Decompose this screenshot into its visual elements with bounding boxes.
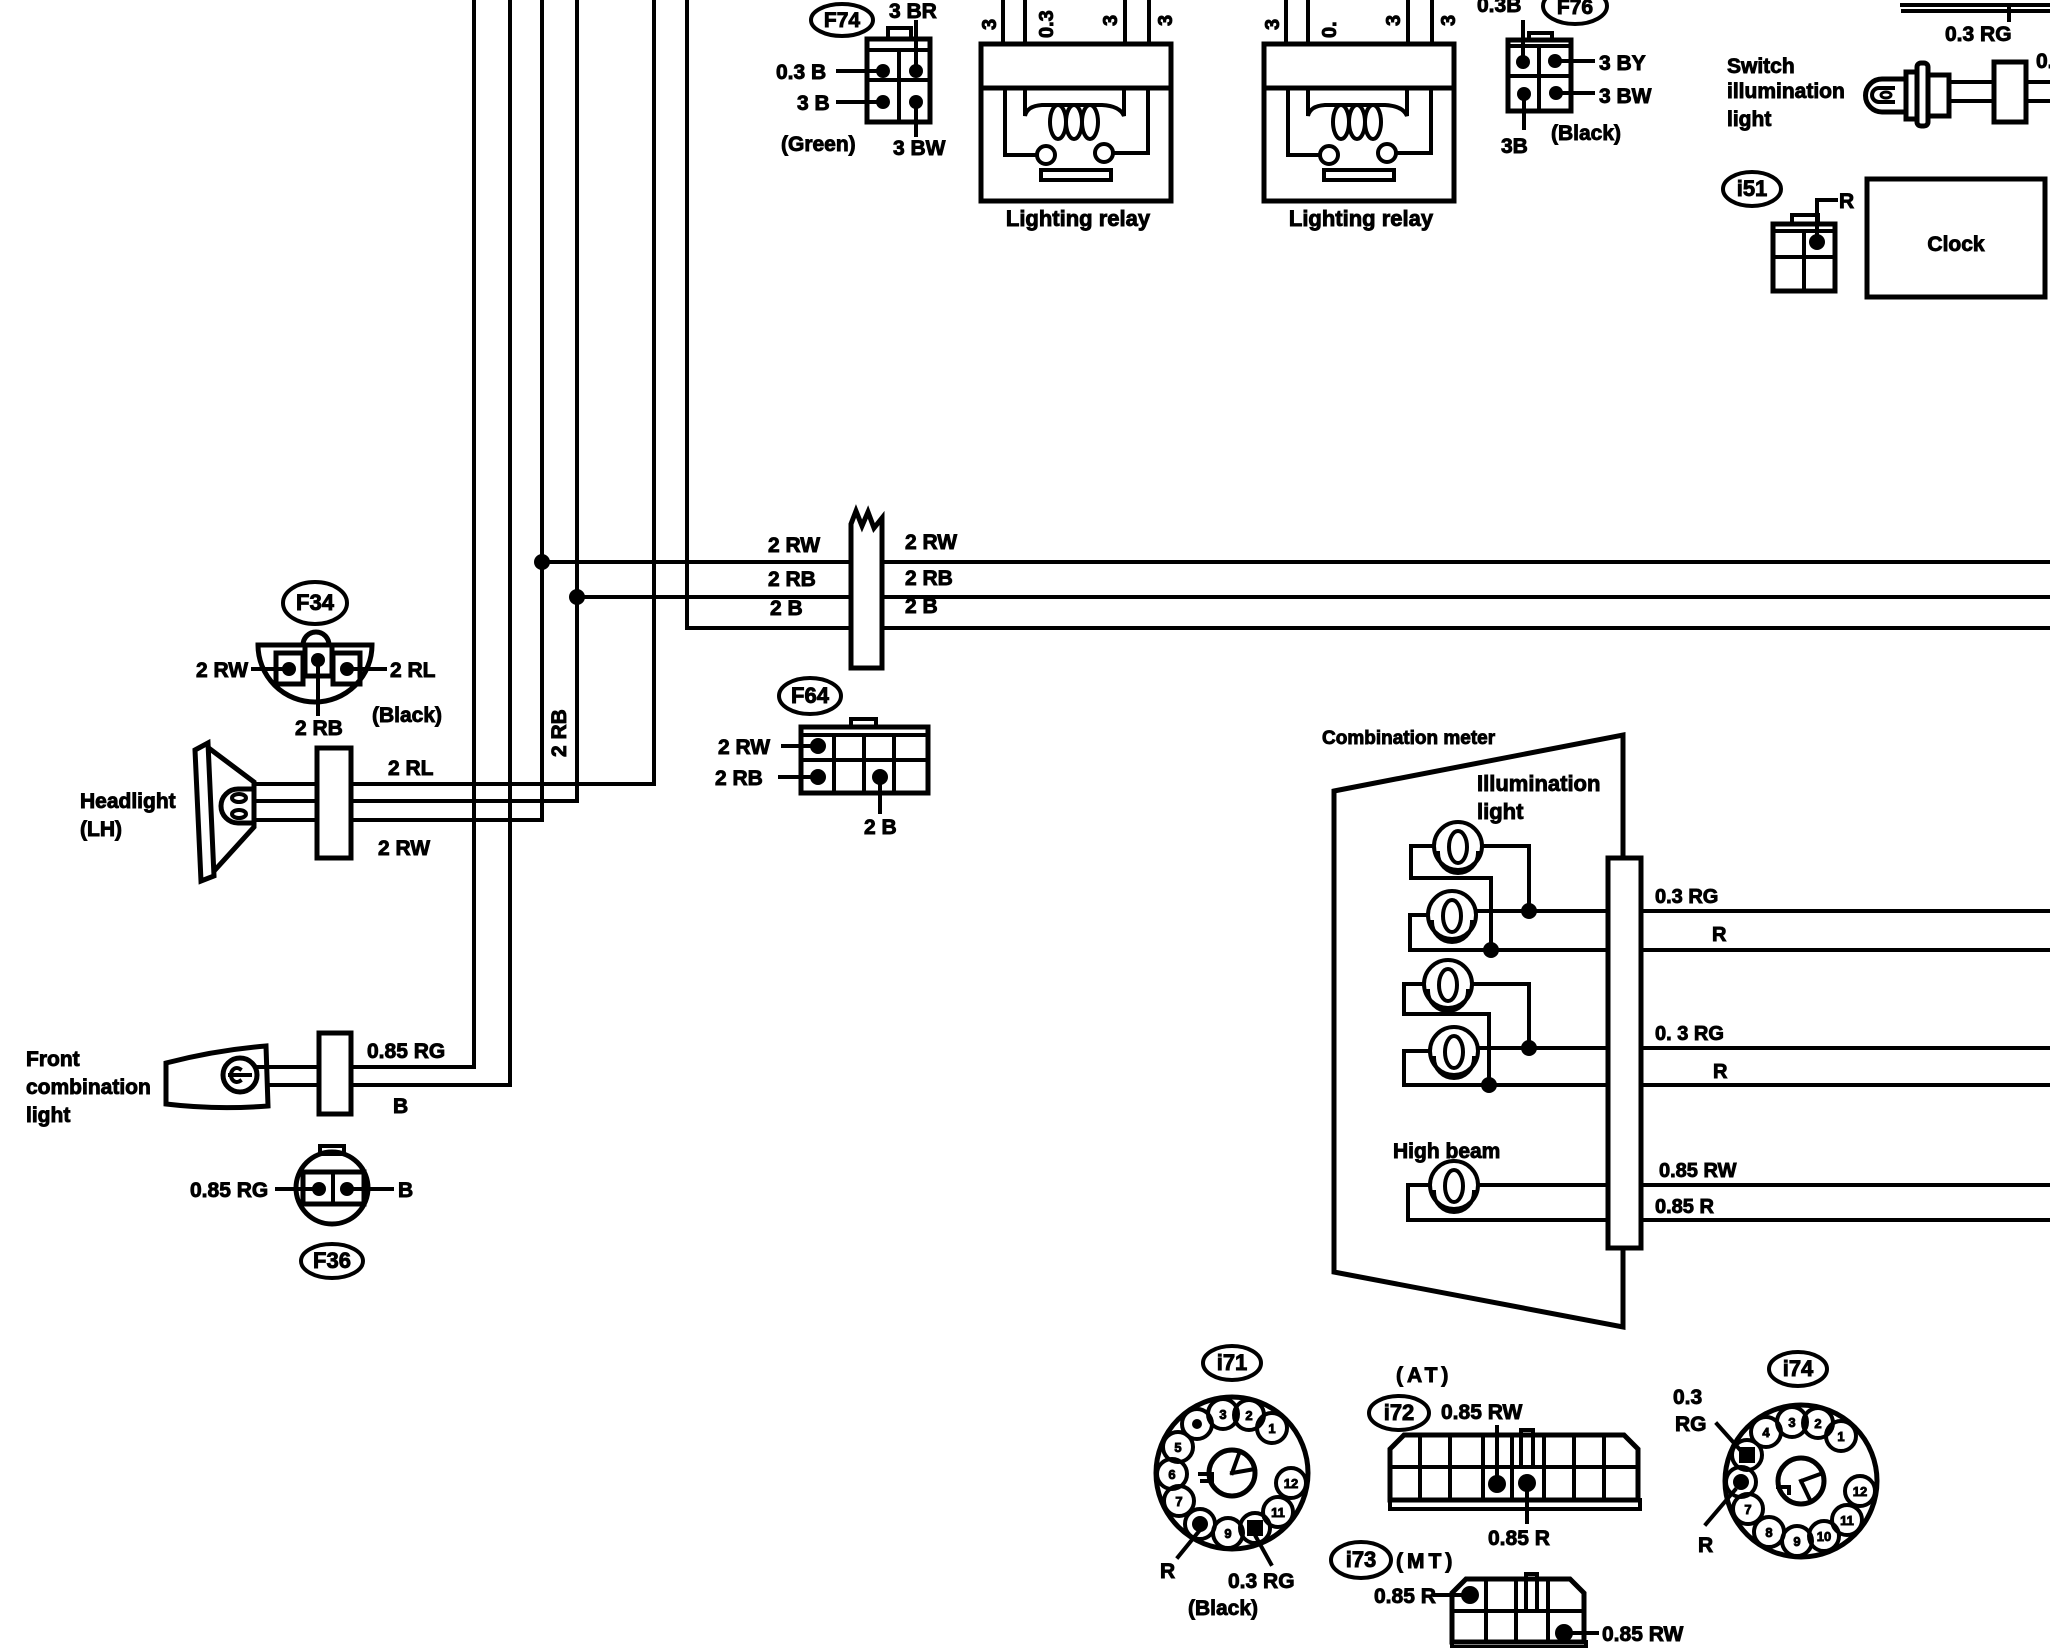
connector F76 label oval (cut at top) xyxy=(1543,0,1607,24)
connector F76 tab xyxy=(1529,33,1552,40)
svg-text:(Black): (Black) xyxy=(372,704,442,727)
svg-text:F34: F34 xyxy=(296,590,335,615)
connector i51 body xyxy=(1773,224,1835,291)
connector F36 pin band xyxy=(303,1172,364,1204)
wire tick on 0.3RG xyxy=(2007,7,2011,20)
svg-text:0.3B: 0.3B xyxy=(1477,0,1521,17)
svg-text:Combination meter: Combination meter xyxy=(1322,728,1496,749)
connector F74 tab xyxy=(888,28,911,39)
wire V1 (0.85 RG feed) vertical x=474 xyxy=(472,0,476,1067)
wire continues right (double) xyxy=(2026,80,2050,84)
connector i74 pin 1 xyxy=(1826,1421,1856,1451)
bulb3 left staple wire xyxy=(1404,984,1489,1077)
wire stub 3B from F76 xyxy=(1522,100,1526,128)
svg-text:(Black): (Black) xyxy=(1188,1597,1258,1620)
combination meter trapezoid outline xyxy=(1334,735,1623,1327)
connector i71 pin 12 xyxy=(1276,1468,1306,1498)
connector i74 pin 2 xyxy=(1803,1408,1833,1438)
junction dot on 0.3RG line 2 xyxy=(1521,1040,1537,1056)
connector F36 label oval xyxy=(301,1244,363,1278)
connector i71 pin 2 xyxy=(1234,1400,1264,1430)
connector F76 body xyxy=(1508,40,1571,111)
relay contact wire left xyxy=(1005,88,1037,155)
wire stub 0.3B into F76 xyxy=(1521,22,1525,62)
connector i73 bottom band xyxy=(1452,1642,1586,1647)
svg-text:R: R xyxy=(1698,1534,1713,1557)
inline connector (switch illum) xyxy=(1994,62,2026,122)
svg-text:0.85 RG: 0.85 RG xyxy=(367,1040,445,1063)
svg-text:2 RL: 2 RL xyxy=(388,757,434,780)
wire 2RL headlight y=784 xyxy=(254,782,317,786)
connector i74 body circle xyxy=(1725,1405,1877,1557)
svg-text:9: 9 xyxy=(1224,1526,1231,1541)
connector i74 pin 9 xyxy=(1782,1526,1812,1556)
wire stub 2RW to F34 xyxy=(253,667,283,671)
svg-text:2 RB: 2 RB xyxy=(768,568,816,591)
svg-text:2 RB: 2 RB xyxy=(715,767,763,790)
connector i73 column dividers xyxy=(1484,1580,1488,1642)
wire 0.85R meter (bulb5 left staple) xyxy=(1408,1185,1608,1220)
svg-text:R: R xyxy=(1713,1061,1728,1083)
connector i73 pin 0.85RW xyxy=(1555,1624,1573,1642)
connector i71 pin 11 xyxy=(1263,1497,1293,1527)
connector i73 pin 0.85R xyxy=(1461,1586,1479,1604)
svg-text:2 RW: 2 RW xyxy=(378,837,430,860)
illumination bulb 1 xyxy=(1434,822,1482,870)
connector i74 pin 6 xyxy=(1726,1467,1756,1497)
svg-text:0.85 R: 0.85 R xyxy=(1488,1527,1550,1550)
svg-text:0.3 RG: 0.3 RG xyxy=(1655,886,1718,908)
lighting relay at x=981 xyxy=(1001,0,1005,44)
svg-text:Clock: Clock xyxy=(1927,233,1985,256)
wire B front comb y=1085 xyxy=(268,1083,319,1087)
svg-text:2 RB: 2 RB xyxy=(905,567,953,590)
connector i72 pin 0.85R xyxy=(1518,1474,1536,1492)
svg-text:0.3 RG: 0.3 RG xyxy=(1945,23,2012,46)
connector i73 body xyxy=(1452,1579,1584,1642)
junction dot on R line 2 xyxy=(1481,1077,1497,1093)
relay outer box xyxy=(1264,44,1454,201)
svg-text:0. 3 RG: 0. 3 RG xyxy=(1655,1023,1724,1045)
svg-text:(LH): (LH) xyxy=(80,818,122,841)
connector i74 pin 4 xyxy=(1751,1417,1781,1447)
wire 0.3RG right of bar 2 xyxy=(1641,1046,2050,1050)
svg-text:0.85 R: 0.85 R xyxy=(1374,1585,1436,1608)
svg-text:3 BW: 3 BW xyxy=(893,137,946,160)
connector i72 key slot xyxy=(1519,1430,1523,1467)
connector i72 bottom band xyxy=(1390,1500,1640,1509)
connector F64 pin 2RB xyxy=(810,769,826,785)
connector F34 label oval xyxy=(283,582,347,624)
wire stub 3BW from F76 xyxy=(1562,91,1593,95)
relay armature bar xyxy=(1041,170,1111,180)
svg-text:0.: 0. xyxy=(1319,21,1341,38)
connector i71 label oval xyxy=(1203,1346,1261,1380)
svg-text:(Green): (Green) xyxy=(781,133,856,156)
connector F64 pin 2B xyxy=(872,769,888,785)
svg-text:12: 12 xyxy=(1853,1484,1867,1499)
wire 0.3RG right of bar 1 xyxy=(1641,909,2050,913)
relay contact circle left xyxy=(1037,146,1055,164)
svg-text:F74: F74 xyxy=(824,9,861,32)
connector i74 pin 3 xyxy=(1777,1407,1807,1437)
svg-text:R: R xyxy=(1839,190,1854,213)
svg-text:3: 3 xyxy=(1383,15,1405,26)
relay contact circle right xyxy=(1378,144,1396,162)
connector i72 row divider xyxy=(1390,1465,1638,1469)
connector i74 pin 5 xyxy=(1732,1440,1762,1470)
inline connector on bus (torn-top bar) xyxy=(851,511,882,668)
svg-text:8: 8 xyxy=(1765,1525,1772,1540)
connector i74 pin 10 xyxy=(1809,1521,1839,1551)
connector i74 label oval xyxy=(1769,1352,1827,1386)
wire stub 3BY from F76 xyxy=(1561,59,1593,63)
svg-text:light: light xyxy=(26,1104,70,1127)
svg-text:(Black): (Black) xyxy=(1551,122,1621,145)
connector F36 body circle xyxy=(296,1152,368,1224)
bulb3 right wire to 0.3RG line xyxy=(1472,984,1529,1040)
svg-text:Switch: Switch xyxy=(1727,55,1795,78)
relay contact wire right xyxy=(1113,88,1148,153)
wire stub 2B from F64 xyxy=(878,783,882,812)
svg-text:Lighting relay: Lighting relay xyxy=(1289,206,1434,231)
svg-text:9: 9 xyxy=(1793,1534,1800,1549)
connector i51 pin dot xyxy=(1809,234,1825,250)
svg-text:2 RW: 2 RW xyxy=(718,736,770,759)
svg-text:3: 3 xyxy=(1438,15,1460,26)
wire stub 2RB from F34 center pin xyxy=(316,666,320,714)
wire stub 3B to F74 xyxy=(838,100,877,104)
inline connector front comb light xyxy=(319,1033,351,1114)
svg-text:(AT): (AT) xyxy=(1396,1364,1452,1387)
illumination bulb 4 xyxy=(1430,1027,1478,1075)
svg-text:1: 1 xyxy=(1837,1429,1844,1444)
relay outer box xyxy=(981,44,1171,201)
wire 0.3RG to i74 pin5 xyxy=(1717,1424,1742,1452)
svg-text:light: light xyxy=(1477,799,1524,824)
connector F76 pins xyxy=(1516,55,1530,69)
connector i71 pin 10 xyxy=(1240,1513,1270,1543)
svg-text:F36: F36 xyxy=(313,1248,351,1273)
connector i72 label oval xyxy=(1369,1396,1429,1430)
svg-text:0.: 0. xyxy=(2036,50,2050,73)
svg-text:3: 3 xyxy=(1219,1407,1226,1422)
svg-text:0.3 RG: 0.3 RG xyxy=(1228,1570,1295,1593)
connector i71 pin 7 xyxy=(1164,1486,1194,1516)
svg-text:Front: Front xyxy=(26,1048,80,1071)
high beam bulb xyxy=(1430,1161,1478,1209)
connector i71 pin 8 xyxy=(1185,1509,1215,1539)
connector i71 pin 6 xyxy=(1157,1459,1187,1489)
svg-text:2 B: 2 B xyxy=(864,816,897,839)
connector i71 body circle xyxy=(1156,1397,1308,1549)
svg-text:2 RL: 2 RL xyxy=(390,659,436,682)
connector i74 center hole xyxy=(1778,1458,1824,1504)
wire 0.85R from i73 xyxy=(1435,1593,1470,1597)
front combination light housing xyxy=(166,1046,268,1108)
connector F34 pin cell center xyxy=(305,645,332,676)
connector i71 pin 3 xyxy=(1208,1399,1238,1429)
wire V4 (2RB feed) vertical x=577 xyxy=(575,0,579,801)
connector i72 pin 0.85RW xyxy=(1488,1475,1506,1493)
svg-text:i74: i74 xyxy=(1783,1356,1814,1381)
wire R right of bar 1 xyxy=(1641,948,2050,952)
wire R to i74 pin6 xyxy=(1706,1490,1735,1524)
connector F64 pin 2RW xyxy=(810,738,826,754)
wire R into i51 xyxy=(1817,200,1836,238)
wire V3 (2RW feed) vertical x=542 xyxy=(540,0,544,820)
svg-text:0.85 RW: 0.85 RW xyxy=(1602,1623,1683,1646)
wire R meter pair2 (bulb4 left staple) xyxy=(1404,1051,1608,1085)
wire 2RW headlight y=820 xyxy=(254,818,317,822)
headlight socket pin 1 xyxy=(232,794,246,802)
connector i72 column dividers xyxy=(1418,1437,1422,1500)
svg-text:combination: combination xyxy=(26,1076,151,1099)
svg-text:Illumination: Illumination xyxy=(1477,771,1600,796)
wire 0.85R right of bar xyxy=(1641,1218,2050,1222)
wire V2 (B feed) vertical x=510 xyxy=(508,0,512,1085)
svg-text:light: light xyxy=(1727,108,1771,131)
svg-text:3 BR: 3 BR xyxy=(889,0,937,23)
bulb1 right wire to 0.3RG line xyxy=(1482,846,1529,903)
svg-text:0.3: 0.3 xyxy=(1036,10,1058,38)
switch illumination bulb flange xyxy=(1917,63,1928,126)
illumination bulb 2 xyxy=(1428,891,1476,939)
lighting relay at x=1264 xyxy=(1284,0,1288,44)
wire stub 0.85RG to F36 xyxy=(277,1187,313,1191)
svg-text:2 RB: 2 RB xyxy=(295,717,343,740)
svg-text:3: 3 xyxy=(1262,19,1284,30)
relay coil xyxy=(1308,88,1407,116)
svg-text:Headlight: Headlight xyxy=(80,790,176,813)
svg-text:4: 4 xyxy=(1762,1425,1770,1440)
connector F34 top bump xyxy=(303,632,329,645)
inline connector headlight xyxy=(317,748,351,858)
wire from bulb to connector (double) xyxy=(1949,80,1994,84)
svg-text:illumination: illumination xyxy=(1727,80,1845,103)
connector i71 pin 1 xyxy=(1257,1413,1287,1443)
svg-text:i73: i73 xyxy=(1346,1547,1377,1572)
bulb1 left staple wire xyxy=(1411,846,1491,942)
svg-text:3: 3 xyxy=(979,19,1001,30)
wire stub 0.3B to F74 xyxy=(838,69,877,73)
relay top band xyxy=(1264,86,1454,91)
wire 2B bus y=628 xyxy=(687,626,851,630)
wire 0.85RW from i72 xyxy=(1495,1427,1499,1480)
junction dot on 0.3RG line xyxy=(1521,903,1537,919)
svg-text:3: 3 xyxy=(1155,15,1177,26)
connector i71 pin 9 xyxy=(1213,1518,1243,1548)
svg-text:3B: 3B xyxy=(1501,135,1528,158)
svg-text:11: 11 xyxy=(1840,1513,1854,1528)
svg-text:7: 7 xyxy=(1744,1502,1751,1517)
wire 0.3RG meter pair2 xyxy=(1478,1046,1608,1050)
connector F36 tab xyxy=(320,1146,344,1154)
svg-text:3: 3 xyxy=(1100,15,1122,26)
connector i74 pin 8 xyxy=(1754,1517,1784,1547)
relay contact circle left xyxy=(1320,146,1338,164)
connector i74 pin 7 xyxy=(1733,1494,1763,1524)
junction dot 2RB bus at V4 xyxy=(569,589,585,605)
svg-text:F64: F64 xyxy=(791,683,830,708)
svg-text:R: R xyxy=(1160,1560,1175,1583)
wire 0.85RW right of bar xyxy=(1641,1183,2050,1187)
svg-text:3 B: 3 B xyxy=(797,92,830,115)
wire 0.3RG to i71 pin10 xyxy=(1256,1537,1271,1564)
connector F34 pin dots xyxy=(311,653,325,667)
svg-text:3 BW: 3 BW xyxy=(1599,85,1652,108)
connector i73 label oval xyxy=(1331,1542,1391,1578)
wire 2RB headlight (middle) y=801 xyxy=(254,799,317,803)
connector i73 row divider xyxy=(1452,1609,1584,1613)
svg-text:B: B xyxy=(393,1095,408,1118)
connector F36 pin dots xyxy=(312,1182,326,1196)
svg-text:0.85 R: 0.85 R xyxy=(1655,1196,1714,1218)
wire 0.85R from i72 xyxy=(1525,1487,1529,1522)
svg-text:Lighting relay: Lighting relay xyxy=(1006,206,1151,231)
svg-text:i72: i72 xyxy=(1384,1400,1415,1425)
headlight socket xyxy=(221,789,254,823)
wire V6 (2B feed) vertical x=687 xyxy=(685,0,689,628)
connector i73 key slot xyxy=(1524,1574,1528,1611)
wire stub B from F36 xyxy=(353,1187,392,1191)
wire R to i71 pin8 xyxy=(1178,1530,1200,1557)
wire 0.85RW from i73 xyxy=(1564,1631,1597,1635)
illumination bulb 3 xyxy=(1424,960,1472,1008)
connector F34 pin cell right xyxy=(333,653,360,684)
connector i51 label oval xyxy=(1723,172,1781,206)
wire stub 2RL to F34 xyxy=(352,667,385,671)
svg-text:3 BY: 3 BY xyxy=(1599,52,1646,75)
svg-text:2 RW: 2 RW xyxy=(196,659,248,682)
svg-text:0.85 RW: 0.85 RW xyxy=(1441,1401,1522,1424)
connector i74 pin 11 xyxy=(1832,1505,1862,1535)
svg-text:3: 3 xyxy=(1788,1415,1795,1430)
svg-text:RG: RG xyxy=(1675,1413,1707,1436)
wire 0.85RG front comb y=1067 xyxy=(257,1065,319,1069)
wire V5 (2RL feed) vertical x=654 xyxy=(652,0,656,784)
connector i71 pin 5 xyxy=(1163,1432,1193,1462)
svg-text:2: 2 xyxy=(1814,1416,1821,1431)
relay contact wire left xyxy=(1288,88,1320,155)
switch illumination bulb lamp xyxy=(1866,79,1907,112)
connector i71 pin 4 xyxy=(1182,1409,1212,1439)
svg-text:12: 12 xyxy=(1284,1476,1298,1491)
Clock box xyxy=(1867,179,2045,297)
connector F74 label oval xyxy=(811,4,873,36)
svg-text:0.3: 0.3 xyxy=(1673,1386,1702,1409)
connector F64 body xyxy=(801,727,928,793)
connector i51 tab xyxy=(1792,215,1818,224)
svg-text:2 B: 2 B xyxy=(770,597,803,620)
wire stub 3BR from F74 xyxy=(914,22,918,65)
svg-text:2 B: 2 B xyxy=(905,595,938,618)
headlight socket pin 2 xyxy=(232,810,246,818)
connector F74 body xyxy=(867,39,930,122)
svg-text:0.85 RW: 0.85 RW xyxy=(1659,1160,1737,1182)
wire 0.3RG top right (double line) xyxy=(1902,3,2050,7)
switch illumination bulb collar xyxy=(1906,72,1917,119)
svg-text:6: 6 xyxy=(1168,1467,1175,1482)
wire 2RB bus y=597 xyxy=(577,595,851,599)
svg-text:2 RW: 2 RW xyxy=(768,534,820,557)
svg-text:F76: F76 xyxy=(1557,0,1593,19)
svg-text:5: 5 xyxy=(1174,1440,1181,1455)
svg-text:2 RW: 2 RW xyxy=(905,531,957,554)
connector i71 center hole xyxy=(1209,1450,1255,1496)
combination meter connector bar xyxy=(1608,858,1641,1248)
relay coil xyxy=(1025,88,1124,116)
svg-text:(MT): (MT) xyxy=(1396,1550,1456,1573)
wire R meter pair1 (bulb2 left staple) xyxy=(1410,915,1608,950)
wire R right of bar 2 xyxy=(1641,1083,2050,1087)
headlight lens xyxy=(195,743,214,881)
connector F64 label oval xyxy=(779,678,841,714)
svg-text:B: B xyxy=(398,1179,413,1202)
svg-text:7: 7 xyxy=(1175,1494,1182,1509)
wire 2RW bus y=562 xyxy=(542,560,851,564)
switch illumination bulb body xyxy=(1928,75,1949,116)
relay armature bar xyxy=(1324,170,1394,180)
connector F64 tab xyxy=(851,719,876,727)
relay contact wire right xyxy=(1396,88,1431,153)
front combination light bulb xyxy=(223,1058,257,1092)
wire 0.85RW meter xyxy=(1478,1183,1608,1187)
connector F34 dome body xyxy=(258,645,372,702)
junction dot 2RW bus at V3 xyxy=(534,554,550,570)
wire 0.3RG meter pair1 xyxy=(1476,909,1608,913)
svg-text:1: 1 xyxy=(1268,1421,1275,1436)
svg-text:i71: i71 xyxy=(1217,1350,1248,1375)
wire stub 2RW to F64 xyxy=(783,744,812,748)
wire stub 3BW from F74 xyxy=(914,108,918,135)
svg-text:0.3 B: 0.3 B xyxy=(776,61,826,84)
svg-text:High beam: High beam xyxy=(1393,1140,1500,1163)
svg-text:i51: i51 xyxy=(1737,176,1768,201)
junction dot on R line xyxy=(1483,942,1499,958)
connector i72 body xyxy=(1390,1435,1638,1500)
connector F74 pins xyxy=(876,64,890,78)
relay contact circle right xyxy=(1095,144,1113,162)
connector F34 pin cell left xyxy=(276,653,303,684)
relay top band xyxy=(981,86,1171,91)
wire stub 2RB to F64 xyxy=(780,775,812,779)
headlight reflector funnel xyxy=(210,749,254,870)
connector i74 pin 12 xyxy=(1845,1476,1875,1506)
svg-text:10: 10 xyxy=(1817,1529,1831,1544)
svg-text:R: R xyxy=(1712,924,1727,946)
svg-text:11: 11 xyxy=(1271,1505,1285,1520)
svg-text:0.85 RG: 0.85 RG xyxy=(190,1179,268,1202)
svg-text:2 RB: 2 RB xyxy=(548,709,571,757)
svg-text:2: 2 xyxy=(1245,1408,1252,1423)
